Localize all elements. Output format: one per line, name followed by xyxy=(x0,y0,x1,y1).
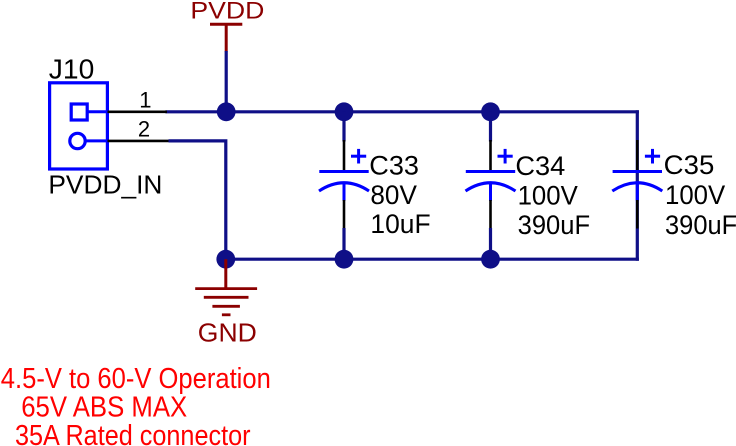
C34 bottom pin xyxy=(489,200,492,229)
J10 pin 2 round pad xyxy=(70,133,85,148)
J10 pin 1 square pad xyxy=(71,104,87,120)
svg-text:C33: C33 xyxy=(369,150,419,180)
svg-text:80V: 80V xyxy=(370,180,417,210)
wire bottom rail xyxy=(226,258,638,261)
J10 pin 1 stub xyxy=(88,110,108,113)
svg-text:J10: J10 xyxy=(49,54,94,85)
ground bar 2 xyxy=(204,296,249,299)
C35 curved plate xyxy=(612,183,662,191)
J10 body outline xyxy=(50,83,108,169)
pin 2 wire xyxy=(108,140,169,143)
ground bar 3 xyxy=(212,305,240,308)
junction bottom C33 xyxy=(335,250,354,269)
wire top rail xyxy=(167,110,637,113)
svg-text:PVDD: PVDD xyxy=(190,0,264,25)
C34 polarity plus xyxy=(498,155,513,158)
ground stem xyxy=(224,259,227,288)
svg-text:100V: 100V xyxy=(665,180,725,210)
svg-text:C35: C35 xyxy=(664,150,715,180)
wire right vertical drop xyxy=(636,112,639,259)
junction bottom GND xyxy=(216,250,235,269)
capacitor C33 xyxy=(319,112,431,259)
J10 pin 2 stub xyxy=(86,139,108,142)
C34 curved plate xyxy=(466,183,516,191)
wire PVDD stem xyxy=(225,51,228,112)
svg-text:4.5-V to 60-V Operation: 4.5-V to 60-V Operation xyxy=(1,363,271,395)
C33 top pin xyxy=(343,140,346,170)
junction top C33 xyxy=(335,102,354,121)
wire pin2 corner to bottom rail xyxy=(169,141,226,259)
C33 polarity plus xyxy=(351,155,366,158)
svg-text:10uF: 10uF xyxy=(370,209,430,239)
junction top C34 xyxy=(481,102,500,121)
svg-text:390uF: 390uF xyxy=(665,210,736,240)
junction bottom C34 xyxy=(481,250,500,269)
wire C34 bottom lead xyxy=(489,228,492,259)
C33 straight plate xyxy=(319,170,368,173)
connector J10 xyxy=(48,54,162,200)
wire C33 top lead xyxy=(342,112,345,142)
power symbol PVDD xyxy=(190,0,264,52)
C35 straight plate xyxy=(613,170,662,173)
svg-text:1: 1 xyxy=(139,88,151,113)
svg-text:100V: 100V xyxy=(518,181,578,211)
ground GND xyxy=(195,259,257,347)
C35 polarity plus xyxy=(645,155,660,158)
svg-text:PVDD_IN: PVDD_IN xyxy=(48,172,162,200)
C35 bottom pin xyxy=(636,200,639,229)
ground bar 1 xyxy=(195,287,257,290)
svg-text:2: 2 xyxy=(138,116,150,141)
pin 1 wire xyxy=(108,111,168,114)
C33 curved plate xyxy=(319,183,369,191)
C34 straight plate xyxy=(466,170,515,173)
svg-text:35A Rated connector: 35A Rated connector xyxy=(15,420,251,446)
ground bar 4 xyxy=(222,313,231,316)
C35 curved plate stub xyxy=(636,182,639,201)
capacitor C34 xyxy=(466,112,591,259)
C33 bottom pin xyxy=(343,200,346,229)
junction top-left xyxy=(217,102,236,121)
wire C33 bottom lead xyxy=(342,228,345,259)
capacitor C35 xyxy=(612,140,736,240)
svg-text:GND: GND xyxy=(198,320,257,348)
C33 curved plate stub xyxy=(343,182,346,201)
svg-text:65V ABS MAX: 65V ABS MAX xyxy=(21,392,187,424)
svg-text:C34: C34 xyxy=(515,151,565,181)
svg-text:390uF: 390uF xyxy=(518,210,591,240)
C35 top pin xyxy=(636,140,639,170)
wire C34 top lead xyxy=(489,112,492,142)
C34 top pin xyxy=(489,140,492,170)
C34 curved plate stub xyxy=(489,182,492,201)
